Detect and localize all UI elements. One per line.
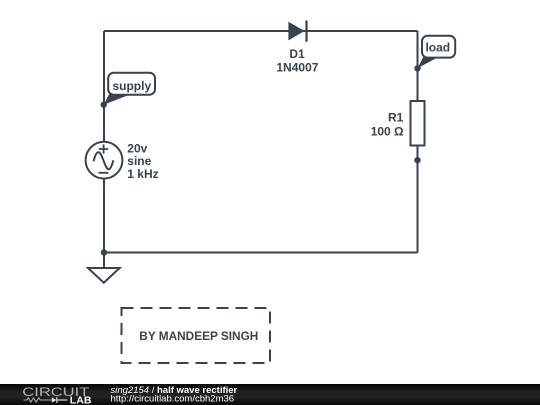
- wire left vertical from top corner to V1 top terminal: [103, 31, 105, 142]
- node load dot: [414, 65, 420, 71]
- svg-text:http://circuitlab.com/cbh2m36: http://circuitlab.com/cbh2m36: [111, 394, 235, 405]
- voltage source V1 (sine): [86, 142, 123, 179]
- svg-text:100 Ω: 100 Ω: [371, 125, 404, 139]
- junction dot R1 bottom: [414, 157, 420, 163]
- svg-text:1N4007: 1N4007: [276, 61, 318, 75]
- footer bar: [0, 384, 540, 405]
- svg-text:supply: supply: [112, 79, 151, 93]
- CircuitLab logo resistor zigzag: [23, 398, 51, 402]
- wire top horizontal from supply branch to load branch: [104, 30, 418, 32]
- annotation dashed box BY MANDEEP SINGH: [122, 308, 271, 363]
- svg-text:R1: R1: [388, 110, 404, 124]
- svg-text:LAB: LAB: [70, 396, 92, 405]
- diode D1: [288, 20, 306, 41]
- svg-text:1 kHz: 1 kHz: [127, 167, 158, 181]
- svg-text:load: load: [425, 41, 450, 55]
- CircuitLab logo diode: [52, 397, 57, 402]
- node supply flag: [104, 73, 155, 105]
- wire left vertical from V1 bottom terminal to ground junction: [103, 179, 105, 253]
- svg-text:D1: D1: [289, 47, 305, 61]
- wire right vertical from top corner to R1 top: [417, 31, 419, 101]
- junction dot ground node: [101, 249, 107, 255]
- value label 20v sine 1kHz: [127, 141, 158, 181]
- node supply dot: [101, 102, 107, 108]
- ground: [88, 268, 120, 283]
- wire ground stub: [103, 253, 105, 269]
- node load flag: [418, 36, 456, 69]
- svg-text:sine: sine: [127, 154, 151, 168]
- wire right vertical from R1 bottom to bottom corner: [417, 146, 419, 253]
- wire bottom horizontal: [104, 252, 418, 254]
- resistor R1: [411, 101, 425, 146]
- svg-text:BY MANDEEP SINGH: BY MANDEEP SINGH: [139, 329, 258, 343]
